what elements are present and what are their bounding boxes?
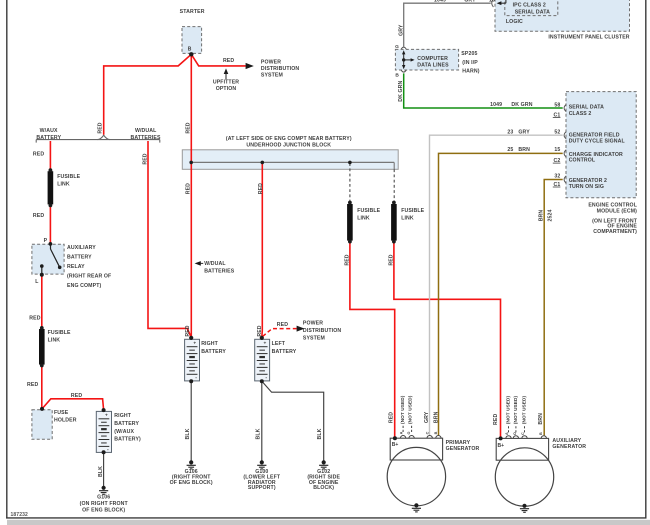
svg-text:RED: RED (258, 183, 264, 194)
svg-text:G106: G106 (97, 495, 110, 501)
svg-text:P: P (44, 238, 48, 244)
svg-text:BATTERY: BATTERY (272, 349, 297, 355)
svg-text:B+: B+ (392, 442, 399, 448)
svg-text:BLK: BLK (98, 466, 104, 477)
svg-text:GENERATOR: GENERATOR (552, 444, 586, 450)
svg-text:BATTERY: BATTERY (114, 421, 139, 427)
svg-text:TURN ON SIG: TURN ON SIG (569, 184, 604, 190)
svg-text:BRN: BRN (538, 413, 544, 425)
svg-text:(NOT USED): (NOT USED) (506, 395, 511, 424)
svg-text:DATA LINES: DATA LINES (417, 63, 449, 69)
svg-text:BATTERIES: BATTERIES (204, 269, 235, 275)
svg-text:CONTROL: CONTROL (569, 158, 596, 164)
svg-text:(NOT USED): (NOT USED) (521, 395, 526, 424)
svg-text:OF ENG BLOCK): OF ENG BLOCK) (170, 480, 213, 486)
svg-text:1049: 1049 (490, 102, 502, 108)
svg-text:LINK: LINK (48, 338, 61, 344)
svg-text:BATTERY: BATTERY (36, 135, 61, 141)
svg-text:BLK: BLK (255, 428, 261, 439)
svg-text:RED: RED (388, 412, 394, 423)
svg-text:UPFITTER: UPFITTER (213, 79, 239, 85)
svg-text:A: A (400, 431, 404, 434)
svg-text:RED: RED (257, 325, 263, 336)
svg-text:W/DUAL: W/DUAL (135, 128, 157, 134)
svg-text:-: - (265, 375, 267, 381)
svg-text:O: O (407, 431, 411, 434)
svg-text:RED: RED (29, 315, 40, 321)
svg-text:OPTION: OPTION (216, 86, 237, 92)
svg-text:BLOCK): BLOCK) (313, 485, 334, 491)
svg-text:BATTERIES: BATTERIES (130, 135, 161, 141)
svg-text:COMPARTMENT): COMPARTMENT) (593, 229, 637, 235)
svg-text:19: 19 (489, 0, 495, 4)
svg-text:(NOT USED): (NOT USED) (407, 395, 412, 424)
svg-text:GRY: GRY (518, 130, 530, 136)
svg-text:SERIAL DATA: SERIAL DATA (569, 105, 604, 111)
svg-text:SP205: SP205 (461, 51, 477, 57)
svg-text:RED: RED (143, 153, 149, 164)
svg-text:FUSIBLE: FUSIBLE (48, 330, 71, 336)
svg-text:RED: RED (98, 122, 104, 133)
svg-text:HARN): HARN) (462, 68, 479, 74)
svg-text:BLK: BLK (185, 428, 191, 439)
svg-text:RED: RED (277, 322, 288, 328)
svg-text:B: B (434, 431, 438, 434)
svg-text:RED: RED (223, 58, 234, 64)
svg-text:LINK: LINK (57, 181, 70, 187)
svg-text:L: L (35, 279, 39, 285)
svg-text:(AT LEFT SIDE OF ENG COMPT NEA: (AT LEFT SIDE OF ENG COMPT NEAR BATTERY) (226, 136, 352, 142)
svg-text:SYSTEM: SYSTEM (261, 72, 283, 78)
svg-text:58: 58 (554, 102, 560, 108)
svg-text:GRY: GRY (424, 411, 430, 423)
svg-text:SUPPORT): SUPPORT) (248, 485, 276, 491)
svg-text:O: O (513, 432, 517, 435)
svg-text:DISTRIBUTION: DISTRIBUTION (303, 328, 341, 334)
svg-text:BRN: BRN (433, 411, 439, 423)
svg-text:INSTRUMENT PANEL CLUSTER: INSTRUMENT PANEL CLUSTER (548, 35, 629, 41)
svg-text:RED: RED (389, 254, 395, 265)
svg-text:RED: RED (27, 382, 38, 388)
svg-text:RED: RED (186, 183, 192, 194)
svg-text:STARTER: STARTER (180, 9, 205, 15)
svg-text:C: C (425, 431, 429, 434)
svg-text:15: 15 (554, 147, 560, 153)
svg-text:RED: RED (185, 325, 191, 336)
svg-text:MODULE (ECM): MODULE (ECM) (597, 209, 637, 215)
svg-text:RIGHT: RIGHT (201, 341, 218, 347)
svg-text:FUSIBLE: FUSIBLE (357, 208, 380, 214)
svg-text:BRN: BRN (518, 147, 530, 153)
svg-text:LOGIC: LOGIC (506, 19, 523, 25)
svg-text:(NOT USED): (NOT USED) (400, 395, 405, 424)
svg-text:2524: 2524 (547, 210, 553, 222)
svg-text:AUXILIARY: AUXILIARY (67, 245, 96, 251)
svg-text:52: 52 (554, 130, 560, 136)
svg-text:(NOT USED): (NOT USED) (513, 395, 518, 424)
svg-text:ENG COMPT): ENG COMPT) (67, 283, 101, 289)
svg-text:RED: RED (493, 414, 499, 425)
svg-text:(RIGHT REAR OF: (RIGHT REAR OF (67, 274, 111, 280)
svg-text:RELAY: RELAY (67, 264, 85, 270)
svg-text:SERIAL DATA: SERIAL DATA (515, 10, 550, 16)
svg-text:+: + (105, 414, 108, 419)
svg-text:23: 23 (507, 130, 513, 136)
svg-text:B: B (395, 73, 399, 79)
svg-text:RED: RED (33, 151, 44, 157)
svg-text:B+: B+ (498, 443, 505, 449)
svg-text:25: 25 (507, 147, 513, 153)
svg-text:GRY: GRY (398, 24, 404, 36)
svg-text:BLK: BLK (317, 428, 323, 439)
svg-text:GENERATOR: GENERATOR (446, 446, 480, 452)
svg-text:C: C (521, 432, 525, 435)
svg-text:UNDERHOOD JUNCTION BLOCK: UNDERHOOD JUNCTION BLOCK (246, 143, 331, 149)
svg-text:+: + (193, 342, 196, 347)
svg-text:LEFT: LEFT (272, 341, 286, 347)
svg-text:FUSIBLE: FUSIBLE (57, 174, 80, 180)
svg-text:(IN I/P: (IN I/P (462, 60, 478, 66)
svg-text:-: - (195, 375, 197, 381)
svg-text:B: B (188, 47, 192, 53)
svg-text:OF ENG BLOCK): OF ENG BLOCK) (82, 507, 125, 513)
svg-text:RED: RED (33, 213, 44, 219)
svg-text:CLASS 2: CLASS 2 (569, 111, 592, 117)
svg-text:FUSE: FUSE (54, 410, 69, 416)
svg-text:1049: 1049 (434, 0, 446, 4)
svg-text:RED: RED (71, 393, 82, 399)
svg-text:LINK: LINK (357, 216, 370, 222)
svg-text:BATTERY: BATTERY (67, 255, 92, 261)
svg-text:(W/AUX: (W/AUX (114, 429, 134, 435)
svg-text:DISTRIBUTION: DISTRIBUTION (261, 66, 299, 72)
svg-text:G: G (395, 44, 399, 50)
svg-text:DUTY CYCLE SIGNAL: DUTY CYCLE SIGNAL (569, 138, 626, 144)
svg-text:RED: RED (185, 122, 191, 133)
svg-text:DK GRN: DK GRN (398, 81, 404, 102)
svg-text:BATTERY: BATTERY (201, 349, 226, 355)
svg-text:FUSIBLE: FUSIBLE (401, 208, 424, 214)
svg-text:SYSTEM: SYSTEM (303, 336, 325, 342)
svg-text:BRN: BRN (538, 210, 544, 222)
svg-text:POWER: POWER (303, 321, 323, 327)
svg-text:GRY: GRY (464, 0, 476, 4)
svg-text:B: B (539, 432, 543, 435)
svg-text:-: - (107, 447, 109, 453)
svg-text:A: A (505, 432, 509, 435)
svg-text:RIGHT: RIGHT (114, 413, 131, 419)
svg-text:HOLDER: HOLDER (54, 417, 77, 423)
svg-text:POWER: POWER (261, 59, 281, 65)
svg-text:W/DUAL: W/DUAL (204, 261, 226, 267)
svg-text:W/AUX: W/AUX (40, 128, 58, 134)
svg-text:RED: RED (345, 254, 351, 265)
svg-text:BATTERY): BATTERY) (114, 436, 141, 442)
svg-text:IPC CLASS 2: IPC CLASS 2 (513, 3, 546, 9)
svg-text:32: 32 (554, 173, 560, 179)
svg-text:DK GRN: DK GRN (511, 102, 532, 108)
svg-text:187232: 187232 (11, 512, 29, 518)
svg-text:COMPUTER: COMPUTER (417, 56, 448, 62)
svg-text:LINK: LINK (401, 216, 414, 222)
svg-text:+: + (263, 342, 266, 347)
svg-text:(ON RIGHT FRONT: (ON RIGHT FRONT (80, 501, 129, 507)
